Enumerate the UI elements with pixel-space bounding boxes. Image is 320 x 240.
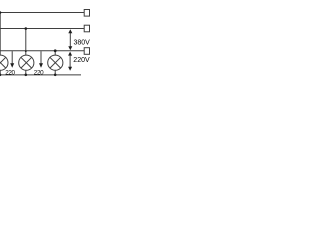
svg-text:220: 220: [34, 70, 44, 77]
svg-text:220: 220: [5, 70, 15, 77]
svg-text:380V: 380V: [74, 40, 91, 47]
svg-text:220V: 220V: [73, 57, 90, 64]
